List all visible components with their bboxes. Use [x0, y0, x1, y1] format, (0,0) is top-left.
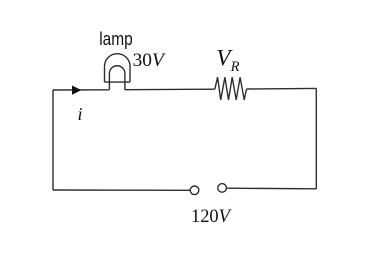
svg-text:120V: 120V [191, 206, 232, 227]
svg-text:i: i [78, 104, 83, 124]
svg-text:30V: 30V [133, 51, 167, 71]
svg-text:lamp: lamp [99, 28, 133, 49]
svg-text:R: R [230, 59, 240, 75]
